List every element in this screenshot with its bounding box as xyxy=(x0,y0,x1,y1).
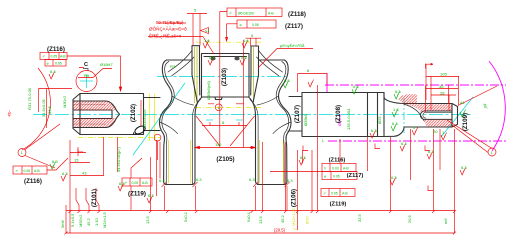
svg-text:5±0.1: 5±0.1 xyxy=(183,211,188,222)
svg-text:28: 28 xyxy=(440,90,445,95)
dim pin inner width xyxy=(202,122,247,126)
hatch right fillet breakout xyxy=(398,94,417,104)
right leg internal edge xyxy=(250,100,258,185)
wire leaders from top-right frames xyxy=(220,12,237,42)
node fillet detail circle left cylinder corner xyxy=(154,134,161,141)
detail C circle xyxy=(76,71,97,92)
node main axis centerline xyxy=(33,114,472,116)
svg-text:6.3: 6.3 xyxy=(461,165,467,170)
FCF mid-left (Z119) xyxy=(122,178,152,186)
svg-text:0.05: 0.05 xyxy=(252,23,259,27)
svg-text:↗: ↗ xyxy=(323,192,326,196)
pin oil holes xyxy=(210,57,215,61)
datum target circle pin bottom xyxy=(215,104,222,111)
hatch left bore lower band xyxy=(73,118,116,127)
wire leader phi16 xyxy=(78,68,112,78)
svg-text:≤1: ≤1 xyxy=(205,28,210,33)
wire yellow vert right web xyxy=(253,47,255,101)
svg-text:A-B: A-B xyxy=(60,55,66,59)
svg-text:Ø35k6(n6): Ø35k6(n6) xyxy=(206,80,211,100)
svg-text:135.5-0.004: 135.5-0.004 xyxy=(346,108,351,130)
svg-text:5m6: 5m6 xyxy=(60,219,65,228)
threaded bore outline xyxy=(73,101,120,128)
svg-text:(Z116): (Z116) xyxy=(47,46,65,53)
svg-text:m6: m6 xyxy=(443,218,448,224)
roughness pin tops xyxy=(203,41,209,49)
wire leader assembly note xyxy=(258,49,313,69)
svg-text:Ø35k6: Ø35k6 xyxy=(303,113,308,126)
left leg internal edge xyxy=(192,100,200,185)
svg-text:13.5: 13.5 xyxy=(145,215,150,224)
wire leader from Z116 frames xyxy=(67,56,121,91)
svg-text:0.8: 0.8 xyxy=(241,55,247,60)
svg-text:(Z116): (Z116) xyxy=(329,158,346,164)
svg-text:5.1±0.5: 5.1±0.5 xyxy=(70,213,75,227)
wire yellow dash top pin xyxy=(196,41,262,43)
svg-text:(Z116): (Z116) xyxy=(24,178,42,185)
svg-text:110: 110 xyxy=(215,142,222,147)
node crank pin axis centerline xyxy=(157,76,286,78)
keyway slot xyxy=(420,111,452,119)
svg-text:0.05: 0.05 xyxy=(333,175,340,179)
left cylinder xyxy=(80,94,144,135)
node hidden journal ticks xyxy=(206,119,213,121)
svg-text:Éî¶È,¿í¶È,±ê×¢: Éî¶È,¿í¶È,±ê×¢ xyxy=(149,33,182,39)
svg-text:M30×2: M30×2 xyxy=(62,95,67,108)
svg-text:6.3: 6.3 xyxy=(50,69,56,74)
svg-text:M55×2: M55×2 xyxy=(78,214,83,227)
corner mark right top xyxy=(426,63,434,68)
svg-text:(Z105): (Z105) xyxy=(216,156,234,163)
crank pin journal xyxy=(202,54,250,98)
svg-text:0.03: 0.03 xyxy=(332,167,339,171)
svg-text:1.6: 1.6 xyxy=(393,107,399,112)
svg-text:ØÖÑÇ×ÂÃæ»Ð»ð: ØÖÑÇ×ÂÃæ»Ð»ð xyxy=(149,26,187,32)
datum target circle right xyxy=(488,148,496,156)
wire magenta datum line lower xyxy=(328,140,506,142)
svg-text:20: 20 xyxy=(433,129,438,134)
svg-text:45.2: 45.2 xyxy=(280,214,285,223)
svg-text:A-B: A-B xyxy=(268,12,274,16)
dim 5 right web top xyxy=(246,38,262,46)
svg-text:0.05: 0.05 xyxy=(331,192,338,196)
right transition fillets xyxy=(384,93,404,137)
node detail-C cross xyxy=(80,80,93,82)
right web inner contour xyxy=(276,62,289,185)
svg-text:↗: ↗ xyxy=(42,55,45,59)
svg-text:6.3: 6.3 xyxy=(159,178,165,183)
svg-text:(Z117): (Z117) xyxy=(347,173,364,179)
svg-text:(Z107): (Z107) xyxy=(294,105,301,123)
wire yellow vert pair left cylinder xyxy=(149,94,151,141)
svg-text:44.5±0.05(µ÷): 44.5±0.05(µ÷) xyxy=(116,146,121,172)
svg-text:(Z108): (Z108) xyxy=(335,105,342,123)
left web inner contour xyxy=(162,62,175,185)
left web foot xyxy=(166,184,193,186)
svg-text:13.5: 13.5 xyxy=(258,215,263,224)
wire leader from cluster xyxy=(270,150,322,172)
FCF top-left group (Z116) xyxy=(40,53,67,60)
svg-text:Ø35±0.05: Ø35±0.05 xyxy=(142,109,147,127)
hatch keyway section xyxy=(404,104,452,113)
left neck xyxy=(144,98,161,131)
FCF contents green xyxy=(15,12,349,196)
vertical ext pin right xyxy=(243,40,245,148)
svg-text://: // xyxy=(230,12,232,16)
dim right top 8 xyxy=(298,74,328,93)
right web tab xyxy=(251,46,259,103)
svg-text:↗: ↗ xyxy=(15,169,18,173)
right web outer profile xyxy=(259,60,292,185)
svg-text:⌀: ⌀ xyxy=(324,175,326,179)
FCF mid-right cluster (Z116/Z117) xyxy=(322,164,356,172)
svg-text:6.3: 6.3 xyxy=(249,177,255,182)
right main journal xyxy=(302,93,384,137)
svg-text:6.3: 6.3 xyxy=(428,149,434,154)
svg-text:(Z119): (Z119) xyxy=(330,202,347,208)
svg-text:Ø0.03/100: Ø0.03/100 xyxy=(238,12,254,16)
wire magenta vert tick xyxy=(326,73,328,92)
right web ramp curves xyxy=(257,51,283,76)
svg-text:(Z101): (Z101) xyxy=(91,189,98,207)
svg-text:6.3: 6.3 xyxy=(287,178,293,183)
svg-text:A-B: A-B xyxy=(142,181,148,185)
bottom dim line 2 xyxy=(66,232,455,234)
svg-text:6.3: 6.3 xyxy=(391,175,397,180)
svg-text:32.5: 32.5 xyxy=(357,213,362,222)
svg-text:R3: R3 xyxy=(170,64,176,69)
wire yellow dash pin bottom xyxy=(196,107,262,109)
svg-text:(Z109): (Z109) xyxy=(462,113,469,131)
wire cyan 45deg construction left neck xyxy=(133,83,185,155)
bottom dim line 1 xyxy=(66,210,455,212)
wire cyan vert right fillet xyxy=(403,98,405,133)
svg-text:20.5: 20.5 xyxy=(407,214,412,223)
svg-text:Ø16H7: Ø16H7 xyxy=(100,62,113,67)
svg-text:34.8: 34.8 xyxy=(47,105,52,114)
left web outer profile xyxy=(159,60,192,185)
svg-text:M24×1.5: M24×1.5 xyxy=(102,212,107,228)
svg-text:6.3: 6.3 xyxy=(62,171,68,176)
svg-text:A-B: A-B xyxy=(34,169,40,173)
corner marks xyxy=(303,144,433,191)
roughness left xyxy=(49,72,55,80)
svg-text:43: 43 xyxy=(82,171,87,176)
long ext lines to bottom dims xyxy=(66,140,70,233)
wire magenta angular dimension arc right xyxy=(489,61,505,151)
svg-text:(Z103): (Z103) xyxy=(221,68,228,86)
svg-text:C: C xyxy=(84,62,88,68)
svg-text:0.05: 0.05 xyxy=(51,55,58,59)
svg-text:(Z102): (Z102) xyxy=(130,104,137,122)
roughness right side xyxy=(299,158,305,166)
keyway vertical exts xyxy=(426,85,449,112)
svg-text:0.8: 0.8 xyxy=(284,78,290,83)
FCF mid-right (Z119) xyxy=(321,189,355,197)
left angular arc xyxy=(22,68,50,150)
right neck xyxy=(288,97,302,132)
svg-text:R31.75-0.05: R31.75-0.05 xyxy=(27,87,32,110)
FCF bottom-left (Z116) xyxy=(13,166,47,174)
vertical ext pin left xyxy=(219,12,221,148)
svg-text:6.3: 6.3 xyxy=(392,121,398,126)
left web ramp curves xyxy=(168,51,194,76)
svg-text:⌀: ⌀ xyxy=(240,23,242,27)
svg-text:6.3: 6.3 xyxy=(196,177,202,182)
dim 5 top xyxy=(187,14,207,46)
right end shaft xyxy=(404,104,458,128)
svg-text:⌀: ⌀ xyxy=(47,62,49,66)
bottom tick marks xyxy=(65,210,457,235)
svg-text:6.3: 6.3 xyxy=(395,89,401,94)
svg-text:15: 15 xyxy=(74,158,79,163)
svg-text:1.6: 1.6 xyxy=(204,38,210,43)
svg-text:6.3: 6.3 xyxy=(148,193,154,198)
corner L mark left xyxy=(78,147,83,152)
FCF top-right (Z118) xyxy=(227,8,282,17)
svg-text:1:10: 1:10 xyxy=(94,217,99,226)
svg-text:6.3: 6.3 xyxy=(52,159,58,164)
wire cyan 45deg construction right end xyxy=(441,97,473,137)
svg-text:A1: A1 xyxy=(460,100,466,105)
svg-text:105: 105 xyxy=(440,72,447,77)
hatch left bore upper band xyxy=(73,102,116,111)
wire yellow leg hardening lines xyxy=(167,140,169,183)
left web tab xyxy=(192,46,200,103)
wire diagonal projection lines legs xyxy=(196,116,255,146)
datum target circle left xyxy=(18,149,26,157)
left web inner leg curve xyxy=(183,97,202,185)
pin center hole xyxy=(202,97,249,100)
right web inner leg curve xyxy=(249,97,268,185)
right web foot xyxy=(258,184,285,186)
section loop symbol xyxy=(134,125,147,136)
svg-text:30: 30 xyxy=(439,84,444,89)
left short dims xyxy=(70,149,104,176)
dim 110 between legs xyxy=(195,147,256,149)
thread minor lines xyxy=(74,105,105,125)
jogged extension lines left xyxy=(76,188,79,211)
svg-text:A-B: A-B xyxy=(342,192,348,196)
svg-text:0.05: 0.05 xyxy=(24,169,31,173)
svg-text:M12×1.25: M12×1.25 xyxy=(291,207,296,226)
left shaft stub face xyxy=(73,94,80,135)
svg-text:R5: R5 xyxy=(84,73,90,78)
wire yellow dash under left cylinder xyxy=(78,137,160,139)
svg-text:6.3: 6.3 xyxy=(371,128,377,133)
svg-text:6.3: 6.3 xyxy=(300,155,306,160)
svg-text:µñ¼ýÉè¼²ÖÃ: µñ¼ýÉè¼²ÖÃ xyxy=(280,43,305,48)
svg-text:(Z106): (Z106) xyxy=(291,189,298,207)
right end dims xyxy=(426,77,459,96)
FCF top-right (Z117) xyxy=(237,20,276,28)
right angular leaders xyxy=(447,120,492,153)
svg-text:6.3: 6.3 xyxy=(401,141,407,146)
wire yellow vert pair left of pin xyxy=(193,47,195,103)
svg-text:1.6: 1.6 xyxy=(243,38,249,43)
svg-text:(Z118): (Z118) xyxy=(288,11,306,18)
svg-text:A-B: A-B xyxy=(343,167,349,171)
left web waist internal curves xyxy=(160,96,194,134)
svg-text:50-71(ÆµÆµ): 50-71(ÆµÆµ) xyxy=(156,20,184,25)
svg-text:31.5±0.05: 31.5±0.05 xyxy=(41,98,46,117)
taper symbol xyxy=(201,28,209,34)
svg-text:0.05: 0.05 xyxy=(132,181,139,185)
svg-text:(Z119): (Z119) xyxy=(128,191,146,198)
svg-text://: // xyxy=(324,167,326,171)
svg-text:0.05: 0.05 xyxy=(55,62,62,66)
wire leaders from note xyxy=(148,23,214,54)
svg-text:(29.5): (29.5) xyxy=(274,228,286,233)
green foot marks xyxy=(61,174,67,182)
right web waist internal curves xyxy=(257,96,291,134)
svg-text:0.8: 0.8 xyxy=(353,84,359,89)
svg-text:(Z117): (Z117) xyxy=(285,23,303,30)
svg-text:5±0.1: 5±0.1 xyxy=(246,211,251,222)
svg-text:Ø25: Ø25 xyxy=(377,116,382,124)
svg-text:Ø10: Ø10 xyxy=(305,216,310,224)
svg-text:45.2: 45.2 xyxy=(86,217,91,226)
left upper dims xyxy=(39,89,73,129)
svg-text:↗: ↗ xyxy=(124,181,127,185)
svg-text:0.8: 0.8 xyxy=(209,55,215,60)
wire magenta datum line upper xyxy=(325,84,506,86)
